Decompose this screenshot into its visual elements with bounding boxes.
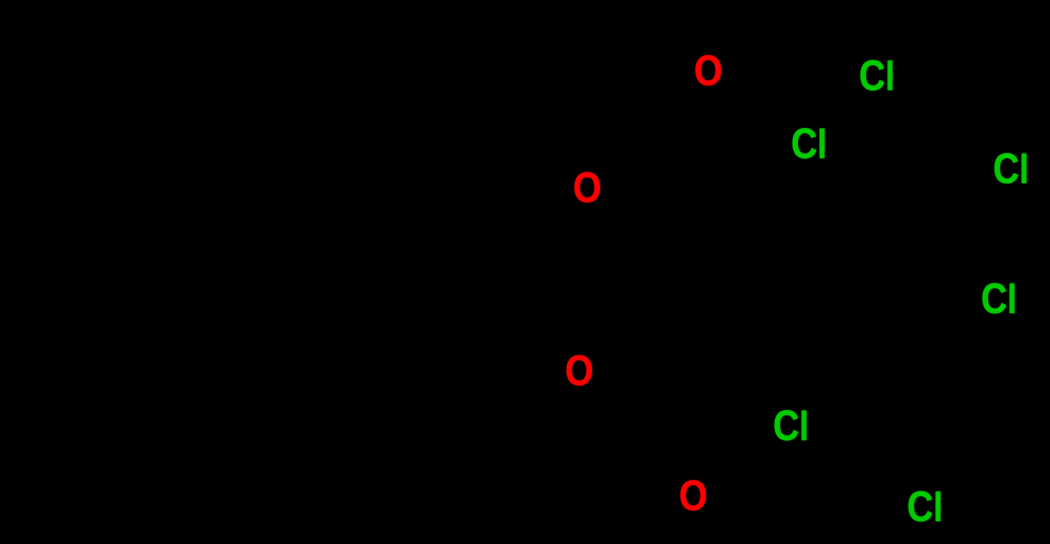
wire: bond C(a2) - ring carbon C3 [648, 447, 760, 450]
wire: carbonyl double bond C(a2)=O bottom, line 1 [648, 447, 676, 477]
wire: bond O1 - carbonyl carbon C(a1) [605, 121, 660, 170]
wire: ring double bond C5=C6, line 2 [944, 236, 958, 334]
node Cl: bridge chlorine a (top) [859, 55, 895, 98]
wire: ring bond C3 - C4 (bridgehead) [760, 425, 884, 450]
wire: ring bond C2 - C1 (bridgehead) [762, 167, 833, 222]
wire: ring bond C6 - C1 [833, 222, 952, 341]
wire: bond C5 - Cl (upper right chlorine) [967, 190, 999, 238]
wire: ring bond C4 - C7 (bridge carbon) [866, 158, 884, 425]
wire: carbonyl double bond C(a1)=O top, line 2 [668, 101, 697, 128]
node O: carbonyl oxygen of ester 1 (top) [694, 50, 723, 93]
wire: bond C(a1) - ring carbon C2 [660, 121, 762, 167]
wire: bond C4 - Cl (bottom chlorine) [884, 425, 901, 486]
wire: ring bond C1 - C7 (bridge carbon) [833, 148, 862, 222]
node Cl: vinylic chlorine c (right edge) [993, 148, 1029, 191]
wire: bond C7 - Cl (second bridge chlorine) [831, 143, 862, 148]
node O: ester oxygen O2 [565, 350, 594, 393]
node Cl: chlorine f (bottom) [907, 486, 943, 529]
wire: alkyl chain 2 (second hexyl chain to ester oxygen O2) [0, 318, 560, 372]
node Cl: chlorine e (lower middle) [773, 405, 809, 448]
wire: carbonyl double bond C(a1)=O top, line 1 [660, 93, 690, 121]
wire: ring bond C2 - C3 [760, 167, 762, 450]
wire: bond C7 - Cl (top chlorine) [862, 97, 868, 148]
wire: ring double bond C5=C6, line 1 [952, 238, 967, 341]
wire: carbonyl double bond C(a2)=O bottom, line 2 [640, 455, 666, 483]
node Cl: vinylic chlorine d (right) [981, 278, 1017, 321]
wire: alkyl chain 1 (hexyl chain to ester oxygen O1) [12, 28, 556, 252]
wire: bond C3 - Cl (lower left chlorine) [760, 446, 771, 450]
node O: ester oxygen O1 [573, 167, 602, 210]
wire: bond O2 - carbonyl carbon C(a2) [598, 390, 648, 447]
node Cl: bridge chlorine b [791, 123, 827, 166]
wire: ring bond C4 - C5 [884, 238, 967, 425]
wire: bond C6 - Cl (right chlorine) [952, 319, 976, 341]
node O: carbonyl oxygen of ester 2 (bottom) [679, 475, 708, 518]
wire: bond chain1 C - O1 (ester single bond) [556, 209, 569, 252]
